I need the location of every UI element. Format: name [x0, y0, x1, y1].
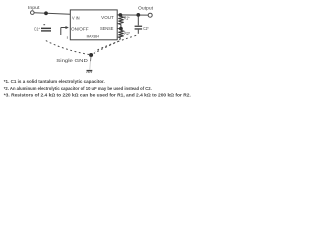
resistor R1 — [118, 16, 129, 27]
capacitor C2 — [135, 17, 149, 34]
svg-text:SENSE: SENSE — [100, 26, 113, 31]
svg-text:R2*: R2* — [124, 31, 130, 36]
op-amp U1 regulator box — [70, 10, 117, 40]
svg-text:R1*: R1* — [124, 16, 130, 21]
svg-text:V IN: V IN — [72, 16, 80, 21]
wire stub artifact — [66, 36, 68, 39]
node junction VOUT/C2 — [136, 13, 140, 17]
svg-text:*1. C1 is a solid tantalum el: *1. C1 is a solid tantalum electrolytic … — [4, 79, 105, 84]
terminal input — [31, 11, 35, 15]
node junction VOUT/R1 — [119, 13, 123, 17]
wire dashed C1 gnd to single point — [46, 41, 89, 55]
terminal output — [148, 13, 152, 17]
ground — [87, 57, 93, 74]
node junction input/C1 — [44, 11, 48, 15]
node junction R1/R2/SENSE — [119, 27, 123, 31]
svg-text:VOUT: VOUT — [101, 15, 114, 20]
resistor R2 — [118, 30, 130, 40]
svg-text:Output: Output — [138, 5, 154, 10]
node ON/OFF drive arrow — [61, 26, 69, 35]
wire SENSE stub — [117, 28, 121, 30]
svg-text:*2. An aluminum electrolytic: *2. An aluminum electrolytic capacitor o… — [4, 86, 152, 91]
wire dashed C2 gnd to single point — [95, 35, 136, 51]
svg-text:Input: Input — [28, 5, 40, 10]
svg-text:MAX884: MAX884 — [87, 33, 100, 38]
svg-text:Single GND: Single GND — [56, 58, 88, 63]
svg-text:*3. Resistors of 2.4 kΩ to 22: *3. Resistors of 2.4 kΩ to 220 kΩ can be… — [4, 92, 191, 97]
svg-text:C2*: C2* — [143, 26, 149, 31]
wire dashed R2 gnd to single point — [94, 41, 119, 53]
wire input to VIN — [34, 13, 70, 15]
svg-text:ON/OFF: ON/OFF — [71, 26, 89, 31]
node single GND point — [89, 53, 93, 57]
wire VOUT to output — [117, 14, 148, 16]
svg-text:C1*: C1* — [34, 27, 40, 32]
capacitor C1 — [34, 24, 51, 31]
